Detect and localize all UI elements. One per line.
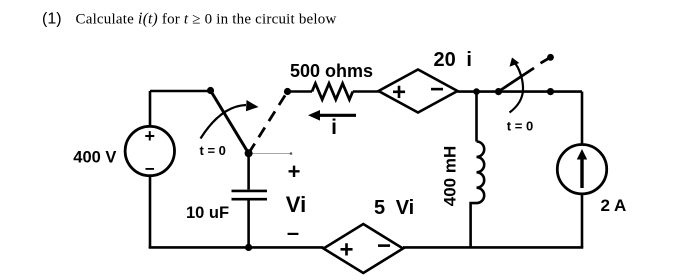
svg-text:500 ohms: 500 ohms <box>290 61 373 81</box>
svg-text:–: – <box>287 220 299 245</box>
svg-text:+: + <box>392 79 406 106</box>
svg-text:20 i: 20 i <box>434 49 472 71</box>
svg-text:400 V: 400 V <box>73 149 116 167</box>
svg-text:t = 0: t = 0 <box>507 119 533 134</box>
svg-text:t = 0: t = 0 <box>200 143 226 158</box>
svg-text:−: − <box>145 160 155 179</box>
svg-text:(1): (1) <box>42 11 62 28</box>
svg-text:−: − <box>430 76 444 103</box>
svg-text:Vi: Vi <box>286 192 306 217</box>
svg-text:2 A: 2 A <box>601 196 627 215</box>
svg-text:i: i <box>331 116 337 139</box>
svg-text:10 uF: 10 uF <box>186 204 229 222</box>
svg-text:Calculate i(t) for t ≥ 0 in th: Calculate i(t) for t ≥ 0 in the circuit … <box>76 9 337 28</box>
svg-text:+: + <box>339 237 353 264</box>
svg-text:400 mH: 400 mH <box>441 146 460 206</box>
svg-text:+: + <box>288 159 301 184</box>
svg-text:−: − <box>377 233 391 260</box>
svg-text:5 Vi: 5 Vi <box>374 197 414 219</box>
svg-text:+: + <box>145 126 156 146</box>
